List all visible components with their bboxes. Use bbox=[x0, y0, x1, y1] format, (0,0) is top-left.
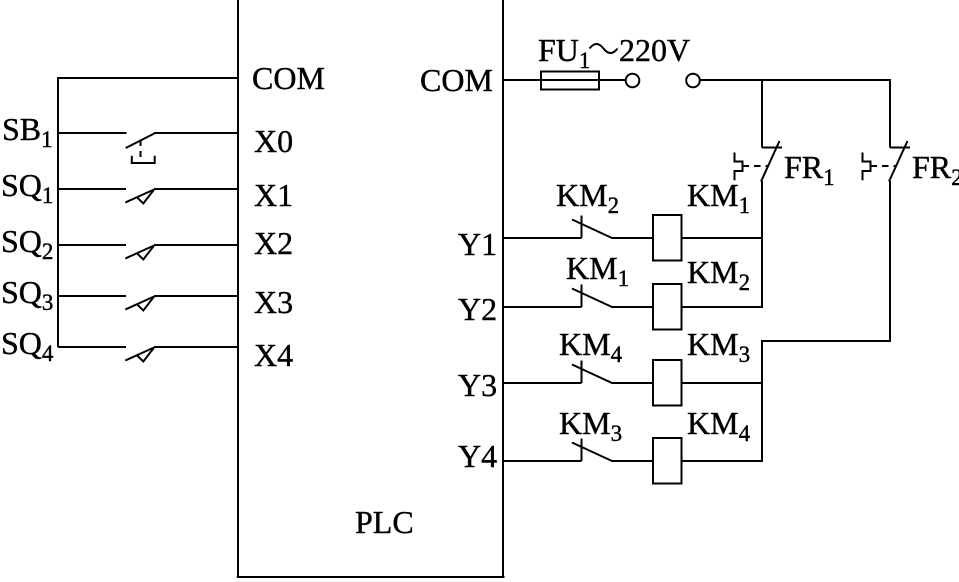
svg-text:KM2: KM2 bbox=[687, 254, 750, 295]
svg-text:Y4: Y4 bbox=[458, 438, 497, 474]
svg-text:X1: X1 bbox=[254, 177, 293, 213]
wire COM right to fuse bbox=[503, 79, 626, 81]
wire Y3 from PLC bbox=[503, 382, 582, 384]
pushbutton SB1 (NO, momentary) bbox=[126, 133, 155, 163]
wire X2 right segment bbox=[154, 244, 238, 246]
thermal overload contact FR2 bbox=[863, 141, 911, 182]
limit switch SQ4 (NO) bbox=[125, 348, 154, 362]
wire COM left bbox=[57, 77, 238, 79]
PLC box left side bbox=[237, 0, 239, 577]
NC contact KM3 (interlock in Y4 rung) bbox=[572, 439, 612, 462]
wire Y4 coil to branch bbox=[682, 460, 764, 462]
wire X1 right segment bbox=[154, 188, 238, 190]
switch terminal circle right bbox=[686, 74, 700, 88]
wire X3 right segment bbox=[154, 295, 238, 297]
limit switch SQ2 (NO) bbox=[125, 246, 154, 260]
svg-text:X3: X3 bbox=[254, 284, 293, 320]
svg-text:KM1: KM1 bbox=[566, 250, 629, 291]
wire top right run bbox=[700, 79, 891, 81]
NC contact KM1 (interlock in Y2 rung) bbox=[572, 285, 612, 308]
switch terminal circle left bbox=[626, 74, 640, 88]
thermal overload contact FR1 bbox=[735, 141, 783, 182]
fuse FU1 bbox=[541, 72, 599, 90]
svg-text:KM3: KM3 bbox=[559, 405, 622, 446]
svg-text:FR2: FR2 bbox=[912, 149, 959, 190]
wire Y4 from PLC bbox=[503, 460, 582, 462]
wire Y1 to coil bbox=[612, 237, 654, 239]
wire Y3/Y4 branch vertical bbox=[761, 341, 763, 461]
wire X2 left segment bbox=[58, 244, 126, 246]
svg-text:KM4: KM4 bbox=[687, 405, 751, 446]
coil KM1 bbox=[653, 215, 682, 261]
wire X3 left segment bbox=[58, 295, 126, 297]
svg-text:SB1: SB1 bbox=[2, 111, 53, 152]
coil KM4 bbox=[653, 438, 682, 484]
svg-text:Y3: Y3 bbox=[458, 367, 497, 403]
svg-text:COM: COM bbox=[420, 62, 493, 98]
wire Y4 to coil bbox=[612, 460, 654, 462]
left input bus bbox=[57, 78, 59, 347]
wire X4 left segment bbox=[58, 346, 126, 348]
svg-text:SQ3: SQ3 bbox=[1, 274, 53, 315]
wire Y1 coil to FR1 branch bbox=[682, 237, 763, 239]
wire FR1 upper vertical bbox=[761, 80, 763, 148]
wire jog FR2 to Y3/Y4 branch bbox=[761, 340, 891, 342]
wire FR2 lower vertical bbox=[889, 181, 891, 342]
wire X4 right segment bbox=[154, 346, 238, 348]
wire FR1 lower vertical to Y2 bbox=[761, 181, 763, 307]
svg-text:FU1: FU1 bbox=[538, 32, 590, 73]
wire Y2 from PLC bbox=[503, 306, 582, 308]
wire Y3 coil to branch bbox=[682, 382, 763, 384]
wire X0 left segment bbox=[58, 132, 127, 134]
svg-text:SQ2: SQ2 bbox=[1, 223, 53, 264]
svg-text:SQ4: SQ4 bbox=[1, 325, 54, 366]
svg-text:SQ1: SQ1 bbox=[1, 167, 53, 208]
svg-text:220V: 220V bbox=[619, 32, 690, 68]
svg-text:KM3: KM3 bbox=[687, 326, 750, 367]
svg-text:Y1: Y1 bbox=[458, 226, 497, 262]
svg-text:KM2: KM2 bbox=[556, 177, 619, 218]
wire X1 left segment bbox=[58, 188, 126, 190]
coil KM2 bbox=[653, 284, 682, 330]
wire Y3 to coil bbox=[612, 382, 654, 384]
PLC box bottom side bbox=[237, 576, 505, 578]
wire Y1 from PLC bbox=[503, 237, 582, 239]
svg-text:Y2: Y2 bbox=[458, 291, 497, 327]
limit switch SQ1 (NO) bbox=[125, 190, 154, 204]
svg-text:FR1: FR1 bbox=[784, 149, 835, 190]
wire Y2 coil to FR1 branch bbox=[682, 306, 764, 308]
svg-text:X0: X0 bbox=[254, 123, 293, 159]
svg-text:X4: X4 bbox=[254, 337, 293, 373]
coil KM3 bbox=[653, 360, 682, 406]
limit switch SQ3 (NO) bbox=[125, 297, 154, 311]
wire X0 right segment bbox=[154, 132, 238, 134]
PLC box right side bbox=[502, 0, 504, 577]
NC contact KM4 (interlock in Y3 rung) bbox=[572, 361, 612, 384]
svg-text:X2: X2 bbox=[254, 225, 293, 261]
wire FR2 upper vertical bbox=[889, 80, 891, 148]
NC contact KM2 (interlock in Y1 rung) bbox=[572, 216, 612, 239]
svg-text:COM: COM bbox=[252, 60, 325, 96]
svg-text:KM1: KM1 bbox=[687, 177, 750, 218]
svg-text:PLC: PLC bbox=[355, 504, 414, 540]
wire Y2 to coil bbox=[612, 306, 654, 308]
svg-text:KM4: KM4 bbox=[559, 326, 623, 367]
